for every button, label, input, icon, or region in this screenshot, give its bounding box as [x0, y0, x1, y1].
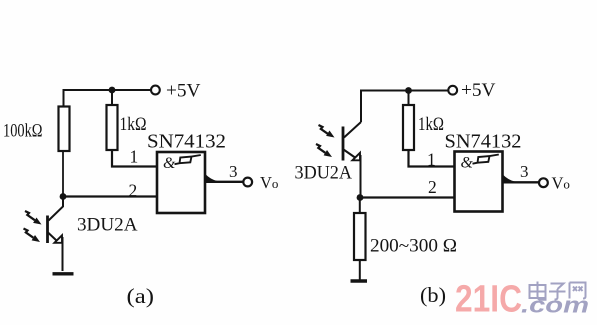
schmitt hysteresis symbol (a) [175, 155, 201, 164]
svg-text:2: 2 [129, 181, 138, 201]
wire gate input 1 (b) [409, 150, 455, 167]
pin number 1 (b) [427, 150, 436, 170]
resistor 1kΩ (b) [403, 105, 414, 150]
resistor 100kΩ [59, 107, 70, 152]
transistor Q1 3DU2A phototransistor (a) [48, 197, 64, 272]
svg-text:Vo: Vo [552, 174, 570, 193]
wire gate input 2 (a) [63, 195, 157, 197]
value label 1kΩ (b) [418, 114, 444, 135]
wire gate input 1 (a) [112, 150, 157, 167]
value label 200~300Ω [370, 236, 457, 257]
schmitt hysteresis symbol (b) [473, 155, 499, 164]
svg-text:+5V: +5V [461, 81, 496, 101]
label +5V (a) [166, 82, 201, 102]
node junction dot emitter/resistor (b) [357, 194, 364, 201]
svg-text:(a): (a) [127, 284, 155, 308]
svg-text:1: 1 [130, 147, 139, 167]
label +5V (b) [461, 81, 496, 101]
svg-text:1kΩ: 1kΩ [418, 114, 444, 135]
pin number 1 (a) [130, 147, 139, 167]
watermark chinese 电 [530, 282, 547, 300]
svg-text:1kΩ: 1kΩ [120, 114, 147, 135]
svg-text:Vo: Vo [260, 173, 278, 192]
gate function label & (b) [461, 155, 474, 172]
svg-text:3: 3 [520, 162, 529, 181]
wire gate output 3 (b) [502, 181, 539, 183]
pin number 2 (a) [129, 181, 138, 201]
terminal Vo (a) [243, 178, 252, 187]
light arrow 2 (b) [316, 144, 332, 157]
output inversion wedge (a) [205, 174, 218, 182]
label SN74132 (a) [147, 132, 226, 153]
svg-text:200~300 Ω: 200~300 Ω [370, 236, 457, 257]
node junction dot 100k/phototransistor (a) [60, 193, 67, 200]
label 3DU2A (a) [77, 215, 138, 236]
watermark 21IC [455, 279, 522, 321]
svg-text:3DU2A: 3DU2A [295, 163, 353, 184]
node junction dot top rail (b) [405, 87, 412, 94]
wire node to resistor (b) [359, 198, 361, 214]
pin number 3 (b) [520, 162, 529, 181]
ground (a) [53, 272, 74, 275]
pin number 3 (a) [229, 162, 238, 181]
wire 1k top stub (b) [408, 91, 410, 106]
wire resistor to ground (b) [359, 260, 361, 280]
svg-text:2: 2 [428, 177, 437, 197]
wire gate input 2 (b) [360, 196, 455, 198]
wire top supply rail (a) [64, 90, 151, 107]
svg-text:SN74132: SN74132 [445, 132, 522, 153]
svg-text:&: & [163, 155, 176, 172]
svg-text:100kΩ: 100kΩ [3, 121, 43, 142]
watermark chinese 网 [570, 283, 586, 299]
ground (b) [351, 279, 368, 282]
transistor Q2 3DU2A phototransistor (b) [343, 122, 361, 198]
watermark .com [521, 293, 589, 318]
value label 100kΩ [3, 121, 43, 142]
value label 1kΩ (a) [120, 114, 147, 135]
svg-text:3: 3 [229, 162, 238, 181]
wire 1k top stub (a) [111, 90, 113, 106]
svg-text:1: 1 [427, 150, 436, 170]
light arrow 1 (a) [25, 211, 42, 225]
svg-text:+5V: +5V [166, 82, 201, 102]
label (b) [420, 283, 446, 307]
label Vo (a) [260, 173, 278, 192]
op-amp gate U2 SN74132 body (b) [455, 152, 503, 212]
node junction dot top rail (a) [109, 87, 116, 94]
svg-text:SN74132: SN74132 [147, 132, 226, 153]
output inversion wedge (b) [502, 175, 515, 183]
svg-text:3DU2A: 3DU2A [77, 215, 138, 236]
wire gate output 3 (a) [204, 181, 243, 183]
svg-text:21IC: 21IC [455, 279, 522, 321]
label (a) [127, 284, 155, 308]
light arrow 2 (a) [24, 229, 41, 243]
terminal Vo (b) [539, 178, 548, 187]
terminal +5V (b) [448, 86, 457, 95]
watermark chinese 子 [549, 284, 566, 300]
wire 100k bottom to node (a) [62, 151, 64, 197]
resistor 1kΩ (a) [107, 105, 118, 150]
gate function label & (a) [163, 155, 176, 172]
resistor 200~300Ω [354, 213, 366, 260]
wire top supply rail (b) [361, 91, 448, 123]
terminal +5V (a) [151, 86, 160, 95]
op-amp gate U1 SN74132 body (a) [157, 152, 205, 213]
label Vo (b) [552, 174, 570, 193]
light arrow 1 (b) [319, 125, 335, 138]
label SN74132 (b) [445, 132, 522, 153]
svg-text:.com: .com [521, 293, 589, 318]
svg-text:(b): (b) [420, 283, 446, 307]
pin number 2 (b) [428, 177, 437, 197]
label 3DU2A (b) [295, 163, 353, 184]
svg-text:&: & [461, 155, 474, 172]
